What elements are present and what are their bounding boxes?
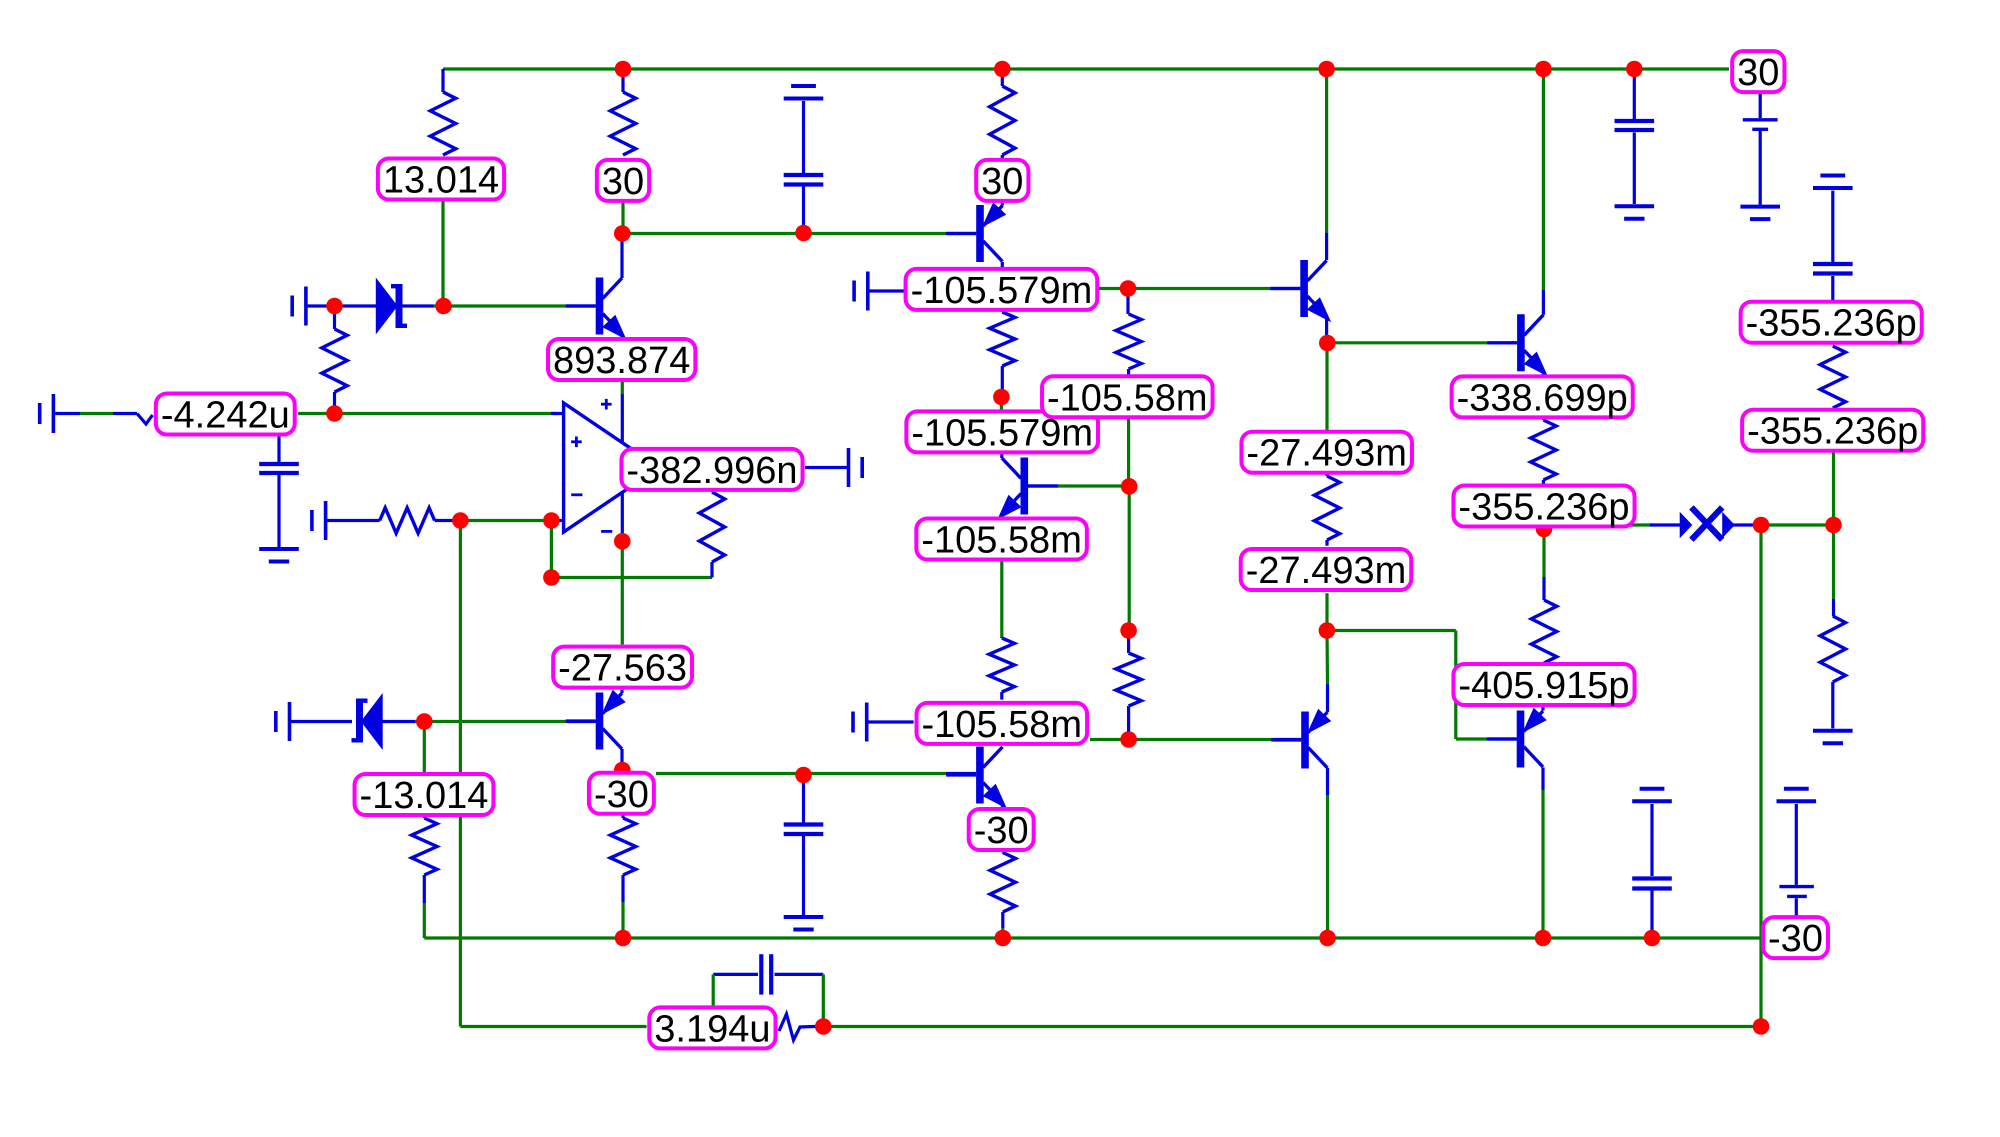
zener diode D1 — [306, 304, 335, 307]
resistor R8 — [1116, 314, 1141, 369]
capacitor C7 feedback — [713, 973, 758, 976]
capacitor C4 right chain — [1831, 191, 1834, 262]
value label "30" — [976, 160, 1028, 201]
wire Q7 collector column — [1542, 69, 1545, 290]
junction at 803.5,775 — [795, 767, 812, 784]
value label "-30" — [969, 809, 1034, 850]
battery V1 +30 — [1759, 92, 1762, 118]
junction at 551.4,577.5 — [543, 569, 560, 586]
junction at 623,69 — [615, 61, 632, 78]
wire R7 leads — [1001, 310, 1004, 312]
ground C3 — [1615, 204, 1655, 208]
svg-text:-27.493m: -27.493m — [1246, 433, 1407, 475]
svg-text:-405.915p: -405.915p — [1458, 665, 1629, 707]
resistor R1 13.014 — [430, 92, 455, 155]
svg-text:-27.563: -27.563 — [558, 648, 687, 690]
transistor Q1 npn — [596, 278, 604, 335]
wire Q6 emitter stub — [1325, 316, 1328, 343]
value label "-338.699p" — [1452, 376, 1633, 417]
junction at 1761,525 — [1753, 517, 1770, 534]
svg-text:30: 30 — [1737, 52, 1779, 94]
wire node to Q9 base — [1327, 629, 1456, 632]
wire port7 to label — [867, 720, 914, 723]
svg-text:-355.236p: -355.236p — [1747, 411, 1918, 453]
wire Q7 emitter stub — [1542, 371, 1545, 376]
svg-text:-13.014: -13.014 — [360, 775, 489, 817]
svg-text:-105.579m: -105.579m — [911, 270, 1093, 312]
wire bottom -30V rail — [424, 936, 1761, 939]
value label "-4.242u" — [156, 394, 295, 435]
svg-text:-338.699p: -338.699p — [1457, 377, 1628, 419]
wire Q6 to Q7 base — [1327, 341, 1489, 344]
wire inverting column down to output net — [459, 521, 462, 1027]
wire -355.236p right column — [1832, 409, 1835, 453]
junction at 1543.4,69 — [1535, 61, 1552, 78]
wire output column right — [1759, 525, 1762, 1027]
resistor R16 — [1531, 600, 1556, 663]
junction at 622.3,233.5 — [614, 225, 631, 242]
wire output to port — [805, 466, 847, 469]
junction at 1761,1026.5 — [1753, 1018, 1770, 1035]
wire base Q1 row — [444, 304, 567, 307]
value label "13.014" — [378, 159, 504, 200]
wire -13.014 column — [423, 722, 426, 775]
wire Q1b emitter to -30 node — [656, 772, 946, 775]
ground V1 — [1740, 205, 1780, 209]
svg-text:-382.996n: -382.996n — [626, 450, 797, 492]
junction at 1128.6,739.5 — [1120, 731, 1137, 748]
junction at 460.4,520.5 — [452, 512, 469, 529]
junction at 1326.9,630.5 — [1319, 622, 1336, 639]
transistor Q5 pnp — [1301, 712, 1309, 769]
junction at 1002.3,69 — [994, 61, 1011, 78]
svg-text:-4.242u: -4.242u — [161, 395, 290, 437]
junction at 1001.4,397 — [993, 389, 1010, 406]
wire 30 mid column — [1001, 69, 1004, 86]
junction at 622.3,770 — [614, 762, 631, 779]
ground C4 (top) — [1813, 186, 1853, 190]
wire mid node to Q5 collector — [1325, 631, 1329, 685]
wire feedback horizontal — [551, 576, 712, 579]
junction at 551.4,520.5 — [543, 512, 560, 529]
ground C2 (top) — [784, 97, 824, 101]
svg-text:893.874: 893.874 — [553, 340, 690, 382]
transistor Q9 pnp — [1517, 711, 1525, 768]
capacitor C2 top mid — [802, 101, 805, 173]
transistor Q1b pnp -27.563 — [596, 693, 604, 750]
capacitor C3 top right — [1633, 69, 1636, 119]
wire -105.58m to Q5 base — [1090, 738, 1129, 741]
capacitor C1 input — [277, 436, 280, 462]
svg-text:30: 30 — [602, 161, 644, 203]
value label "-27.493m" — [1241, 432, 1412, 473]
capacitor C5 bottom mid — [802, 775, 805, 823]
wire R2 column — [621, 69, 624, 92]
svg-text:-30: -30 — [974, 810, 1029, 852]
wire -355.236p node down — [1542, 525, 1545, 577]
resistor R2 30 left — [610, 92, 635, 155]
junction at 1327.5,938 — [1319, 930, 1336, 947]
value label "-105.579m" — [906, 269, 1098, 310]
wire collector rail Q1-Q2 — [622, 232, 946, 235]
wire Q9 emitter to rail — [1541, 768, 1544, 791]
wire R15 leads — [1542, 418, 1545, 420]
op-amp U1 — [564, 403, 659, 532]
ground port P2 zener1 — [304, 287, 308, 326]
ground port P3 inverting — [324, 501, 328, 540]
wire V- pin opamp — [621, 492, 624, 541]
transistor Q4 npn — [976, 747, 984, 804]
wire port5 to label — [870, 289, 905, 292]
resistor R4 zener bias — [322, 329, 347, 392]
junction at 1002.8,938 — [995, 930, 1012, 947]
junction at 1327.3,343 — [1319, 335, 1336, 352]
svg-text:-105.58m: -105.58m — [922, 704, 1083, 746]
diode pair D3 — [1681, 515, 1691, 535]
wire Q9 collector stub — [1541, 706, 1544, 711]
transistor Q3 npn mirrored — [1021, 458, 1029, 515]
wire -30 left column — [621, 815, 624, 818]
resistor R10 — [1116, 653, 1141, 706]
junction at 623,938 — [615, 930, 632, 947]
ground C5 — [784, 915, 824, 919]
junction at 1634.3,69 — [1626, 61, 1643, 78]
wire -105.579m to Q6 base — [1098, 287, 1270, 290]
wire below -105.58m 2 label — [1000, 560, 1003, 637]
svg-text:-27.493m: -27.493m — [1246, 550, 1407, 592]
value label "-355.236p" — [1741, 302, 1922, 343]
value label "-30" — [1763, 917, 1828, 958]
junction at 1833.5,525 — [1825, 517, 1842, 534]
ground R18 — [1813, 729, 1853, 733]
op-amp V+ mark — [601, 403, 612, 406]
transistor Q2 pnp top mid — [976, 205, 984, 262]
ground port P7 — [865, 703, 869, 742]
value label "-355.236p" — [1453, 486, 1634, 527]
wire Q5 emitter to rail — [1326, 768, 1329, 795]
value label "-105.58m" — [916, 519, 1087, 560]
ground port P5 — [866, 272, 870, 311]
resistor R5 inverting input — [380, 508, 435, 533]
resistor R15 — [1531, 420, 1556, 480]
resistor R9 — [989, 638, 1014, 692]
junction at 334.5,306 — [326, 298, 343, 315]
junction at 1326.6,69 — [1318, 61, 1335, 78]
wire Q2 collector to label — [1001, 262, 1004, 269]
svg-text:-30: -30 — [1768, 918, 1823, 960]
value label "-105.58m" — [917, 703, 1088, 744]
ground port P4 output — [847, 448, 851, 487]
value label "-27.493m" — [1241, 549, 1412, 590]
svg-text:3.194u: 3.194u — [654, 1008, 770, 1050]
wire zener D2 row — [415, 720, 422, 723]
resistor R12 -30 left — [610, 818, 635, 875]
wire diode pair row — [1544, 523, 1652, 526]
value label "30" — [597, 160, 649, 201]
junction at 1129.2,486.4 — [1121, 478, 1138, 495]
wire 3.194u hook — [779, 1014, 823, 1040]
junction at 823.3,1026.5 — [815, 1018, 832, 1035]
junction at 334.5,413.5 — [326, 405, 343, 422]
value label "-355.236p" — [1742, 410, 1923, 451]
value label "-13.014" — [355, 774, 494, 815]
wire top +30V rail — [443, 67, 1729, 70]
junction at 1128,288.5 — [1120, 280, 1137, 297]
resistor R14 -27.493m — [1314, 476, 1339, 540]
value label "893.874" — [548, 339, 695, 380]
wire Q3 emitter column — [1000, 515, 1003, 518]
svg-text:13.014: 13.014 — [383, 160, 499, 202]
ground C6 (top) — [1632, 799, 1672, 803]
ground C1 — [259, 547, 299, 551]
zener diode D2 — [290, 720, 353, 723]
value label "-27.563" — [553, 647, 692, 688]
wire noninverting input — [298, 412, 558, 415]
svg-text:30: 30 — [981, 161, 1023, 203]
svg-text:-105.58m: -105.58m — [1047, 377, 1208, 419]
op-amp V- mark — [601, 530, 612, 533]
junction at 803.5,233 — [795, 225, 812, 242]
wire inverting input — [460, 519, 552, 522]
wire V+ pin opamp — [621, 380, 624, 394]
resistor R7 — [990, 312, 1015, 366]
junction at 1543,938 — [1535, 930, 1552, 947]
transistor Q7 npn — [1517, 314, 1525, 371]
junction at 622.3,541.3 — [614, 533, 631, 550]
wire -27.493m column — [1325, 343, 1328, 431]
svg-text:-355.236p: -355.236p — [1458, 487, 1629, 529]
transistor Q6 npn — [1300, 260, 1308, 317]
wire Q6 collector column — [1325, 69, 1328, 233]
capacitor C6 bottom right — [1650, 804, 1653, 876]
op-amp minus input mark — [571, 493, 582, 496]
wire R8 column — [1126, 289, 1129, 315]
junction at 443.5,306 — [435, 298, 452, 315]
resistor R17 right top — [1820, 346, 1845, 408]
value label "-30" — [589, 773, 654, 814]
resistor R18 right bottom — [1820, 616, 1845, 682]
svg-text:-105.58m: -105.58m — [921, 520, 1082, 562]
wire R1 column — [441, 69, 444, 92]
resistor R11 -13.014 — [412, 818, 437, 875]
resistor R6 feedback — [699, 492, 724, 562]
wire bottom output rail — [823, 1025, 1761, 1028]
wire -30 mid column — [1001, 851, 1004, 853]
junction at 424.3,721.5 — [416, 713, 433, 730]
junction at 1652,938 — [1644, 930, 1661, 947]
ground port P1 input — [52, 394, 56, 433]
battery V2 -30 — [1777, 799, 1817, 803]
op-amp plus input mark — [571, 440, 582, 443]
wire feedback node vertical — [550, 521, 553, 578]
value label "-405.915p" — [1453, 664, 1634, 705]
resistor R13 -30 mid — [990, 853, 1015, 913]
ground port P6 zener2 — [288, 702, 292, 741]
value label "30" — [1732, 51, 1784, 92]
junction at 1128.6,630.5 — [1120, 622, 1137, 639]
value label "3.194u" — [649, 1007, 775, 1048]
junction at 1544,529 — [1536, 521, 1553, 538]
svg-text:-30: -30 — [594, 774, 649, 816]
value label "-105.579m" — [906, 411, 1098, 452]
wire mid column to Q3 — [1000, 397, 1003, 411]
value label "-382.996n" — [621, 449, 802, 490]
value label "-105.58m" — [1042, 376, 1213, 417]
resistor R3 30 mid — [990, 86, 1015, 155]
wire Q3 base row — [1028, 484, 1058, 487]
svg-text:-355.236p: -355.236p — [1746, 303, 1917, 345]
